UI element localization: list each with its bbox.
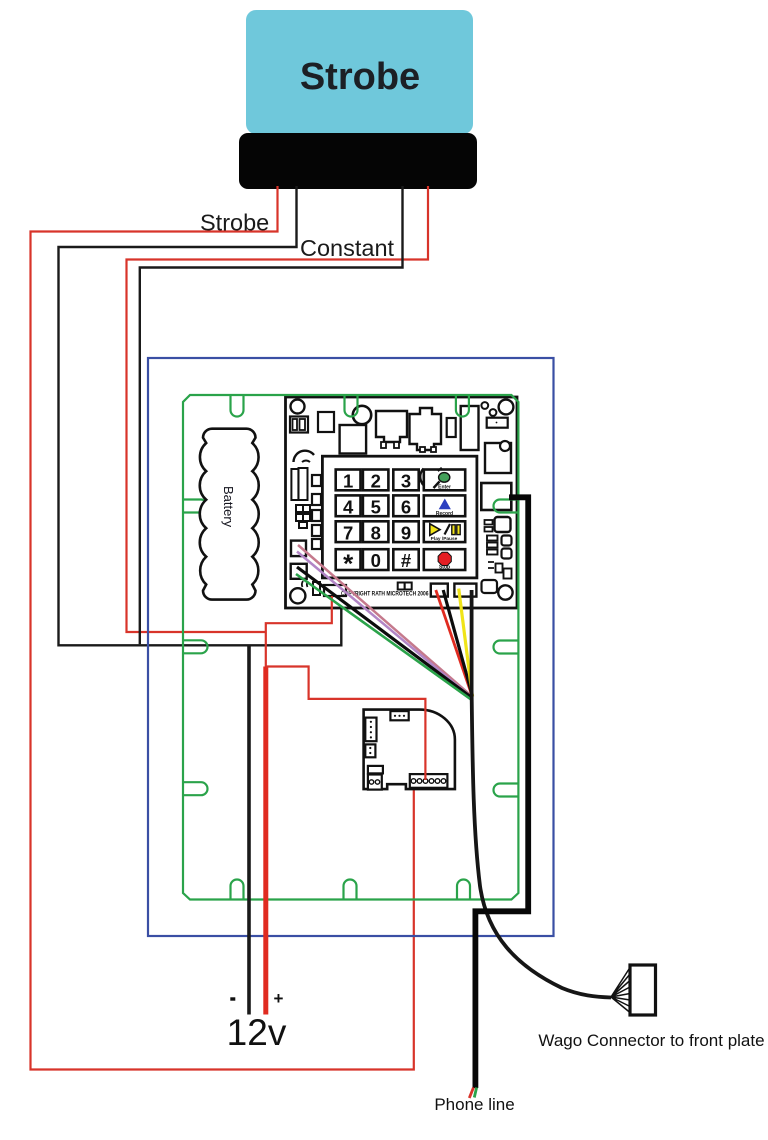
tick marks xyxy=(302,581,308,587)
strobe head (cyan) xyxy=(246,10,473,134)
top slot 2 xyxy=(345,395,358,417)
tilde xyxy=(302,461,310,463)
circle in I xyxy=(500,441,510,451)
key 5 xyxy=(363,495,389,516)
key 7 xyxy=(336,521,361,542)
battery xyxy=(200,429,259,600)
wire black 12v- xyxy=(247,645,251,1014)
bottom slot 2 xyxy=(344,880,357,900)
cluster M xyxy=(296,505,303,512)
key 1 xyxy=(336,470,361,491)
keypad outer box xyxy=(322,456,477,578)
small rect BL xyxy=(313,582,320,595)
svg-text:7: 7 xyxy=(343,522,353,543)
vertical black wire + curve to wago xyxy=(472,590,611,998)
key hash xyxy=(393,549,418,570)
dual rect J xyxy=(291,469,298,500)
svg-text:Strobe: Strobe xyxy=(200,210,269,236)
pad pair K3 xyxy=(312,510,321,521)
svg-text:Stop: Stop xyxy=(439,564,450,570)
thick black cable xyxy=(475,497,528,1088)
circle by C xyxy=(353,406,371,424)
svg-text:9: 9 xyxy=(401,522,411,543)
diagonal black wire 2 xyxy=(443,590,472,697)
mounting hole TL xyxy=(291,400,305,414)
svg-text:4: 4 xyxy=(343,496,354,517)
bottom slot 1 xyxy=(231,880,244,900)
connector Q2 xyxy=(454,584,476,597)
black connector box (thick wire origin) xyxy=(481,483,511,510)
top connector xyxy=(390,711,408,720)
svg-text:Record: Record xyxy=(436,511,453,517)
svg-text:Battery: Battery xyxy=(221,486,236,528)
key 9 xyxy=(393,521,418,542)
record button xyxy=(424,495,465,516)
arc component left xyxy=(294,451,315,462)
left connector 2 xyxy=(365,744,375,757)
left slot 2 xyxy=(183,640,208,653)
left slot 1 xyxy=(183,500,208,513)
12v minus sign xyxy=(230,997,235,1000)
small arrows xyxy=(488,562,494,568)
svg-text:8: 8 xyxy=(371,522,381,543)
svg-text:2: 2 xyxy=(371,471,381,492)
connector Q1 xyxy=(431,584,448,597)
wago fan wires xyxy=(611,968,630,1013)
svg-text:*: * xyxy=(343,549,354,579)
key star xyxy=(336,549,361,570)
key 0 xyxy=(363,549,389,570)
small PCB board xyxy=(364,710,455,790)
enter button xyxy=(424,470,465,491)
svg-text:#: # xyxy=(401,550,411,571)
wire black A (strobe pin to bus) xyxy=(59,186,342,645)
pad pair K2 xyxy=(312,494,321,505)
strobe base (black) xyxy=(239,133,477,189)
wago connector xyxy=(630,965,656,1015)
wire black B (constant black) xyxy=(140,186,403,644)
mounting hole BR2 xyxy=(498,585,512,599)
diagonal black wire xyxy=(297,567,472,698)
diagonal green wire xyxy=(296,574,472,700)
svg-text:Strobe: Strobe xyxy=(300,56,420,98)
key 6 xyxy=(393,495,418,516)
left connector 1 xyxy=(365,718,376,742)
right slot 1 xyxy=(494,500,519,513)
bottom rounded rect xyxy=(482,580,498,593)
tall rect I right xyxy=(485,443,511,473)
svg-text:0: 0 xyxy=(371,550,381,571)
diagonal red wire xyxy=(436,590,473,697)
stack pair xyxy=(496,564,503,573)
small circle 2 xyxy=(490,409,497,416)
stop button xyxy=(424,549,465,570)
svg-text:Phone line: Phone line xyxy=(434,1095,514,1114)
connector for red/black bus xyxy=(324,585,346,596)
top slot 3 xyxy=(456,395,469,417)
key 3 xyxy=(393,470,418,491)
small bits xyxy=(485,520,493,525)
svg-text:1: 1 xyxy=(343,471,353,492)
svg-text:6: 6 xyxy=(401,496,411,517)
key 8 xyxy=(363,521,389,542)
right slot 2 xyxy=(494,641,519,654)
svg-text:5: 5 xyxy=(371,496,381,517)
resistor bars xyxy=(487,536,498,541)
main PCB board xyxy=(286,397,518,608)
green mounting plate xyxy=(183,395,518,900)
svg-text:3: 3 xyxy=(401,471,411,492)
component A xyxy=(290,417,308,433)
key 2 xyxy=(363,470,389,491)
small rect F xyxy=(447,418,456,437)
svg-text:Constant: Constant xyxy=(300,235,395,261)
pad pair K5 xyxy=(312,539,321,549)
RJ jack E xyxy=(410,408,442,450)
connector C xyxy=(340,425,367,454)
bar xyxy=(368,766,383,774)
wire red branch to small pcb xyxy=(266,667,426,781)
wire red A (strobe pin to outer loop to small PCB pin1) xyxy=(31,186,414,1070)
svg-text:Wago Connector to front plate: Wago Connector to front plate xyxy=(538,1031,764,1050)
big circle TR xyxy=(499,400,514,415)
pad pair K1 xyxy=(312,475,321,486)
svg-text:12v: 12v xyxy=(227,1012,287,1053)
curls right xyxy=(502,536,512,546)
square O xyxy=(291,564,307,579)
jumper P xyxy=(398,583,405,590)
thick red 12v+ xyxy=(263,667,268,1015)
svg-text:+: + xyxy=(274,989,284,1008)
rect with dot H xyxy=(487,418,508,428)
wire red pcb pin to junction xyxy=(266,596,332,667)
mounting hole BL xyxy=(290,588,305,603)
svg-text:Enter: Enter xyxy=(438,485,451,491)
play/pause button xyxy=(424,521,465,542)
square N xyxy=(291,541,306,557)
6 pin connector xyxy=(410,774,448,788)
phone line strands xyxy=(469,1088,473,1099)
left slot 3 xyxy=(183,782,208,795)
RJ jack D xyxy=(376,411,407,442)
rounded pad xyxy=(495,517,511,532)
svg-text:Play /Pause: Play /Pause xyxy=(431,536,458,542)
enclosure blue rect xyxy=(148,358,554,936)
right slot 3 xyxy=(494,784,519,797)
tall rect G xyxy=(461,406,479,450)
bottom slot 3 xyxy=(457,880,470,900)
component B xyxy=(318,412,334,432)
jack pins xyxy=(381,442,386,448)
top slot 1 xyxy=(231,395,244,417)
wire red B (constant red) xyxy=(127,186,429,632)
2 pin connector xyxy=(368,775,382,790)
diagonal yellow wire xyxy=(459,589,473,697)
key 4 xyxy=(336,495,361,516)
small circle 1 xyxy=(481,402,488,409)
diagonal violet wire xyxy=(297,552,472,699)
diagonal pink wire xyxy=(298,545,473,697)
pad pair K4 xyxy=(312,525,321,536)
